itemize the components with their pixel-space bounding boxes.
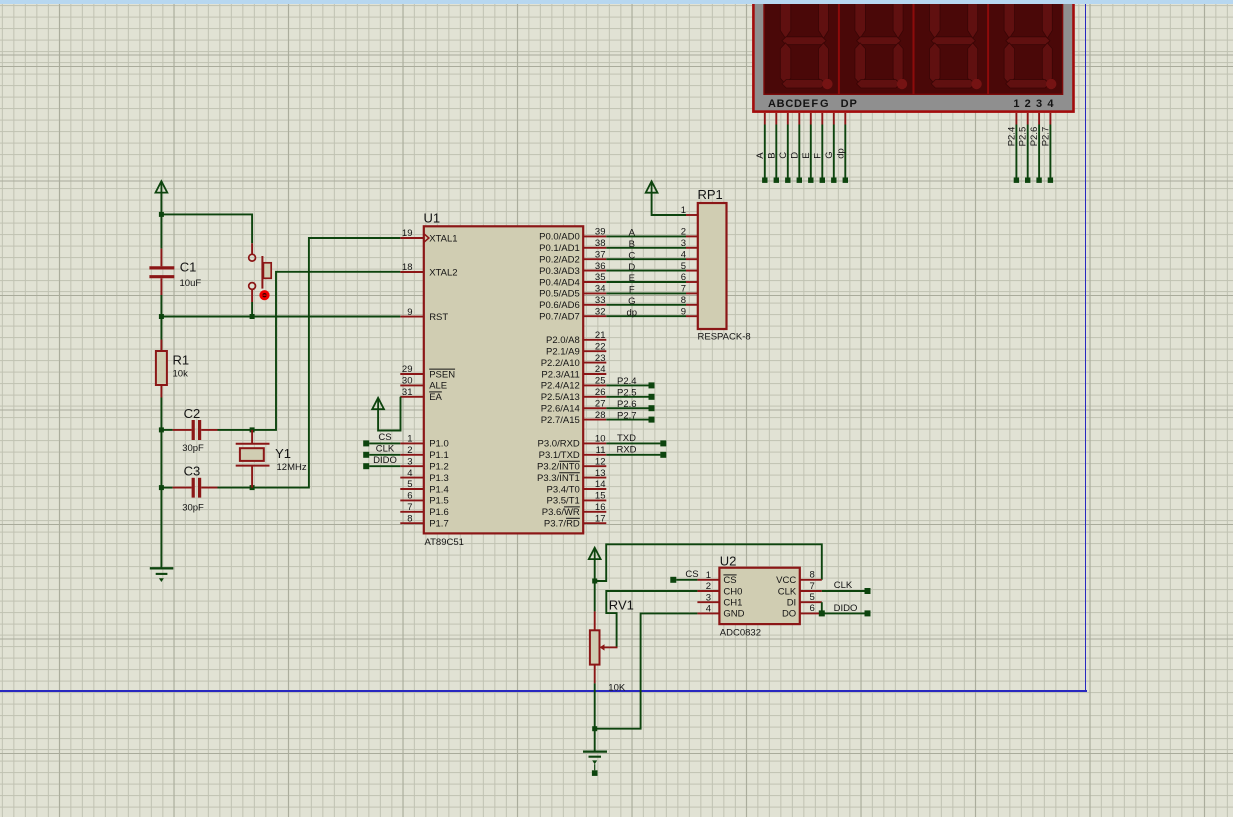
display pin D [798, 113, 800, 125]
terminal P2.4 [649, 382, 655, 388]
terminal P2.6 [649, 405, 655, 411]
svg-text:17: 17 [595, 513, 606, 524]
svg-text:dp: dp [835, 148, 846, 159]
svg-text:P2.7/A15: P2.7/A15 [541, 415, 580, 426]
wire VCC to RP1 pin 1 [652, 193, 686, 215]
RP1 pin 2 [681, 227, 698, 238]
svg-text:C: C [785, 98, 793, 110]
U2 pin 6 DO [782, 603, 822, 620]
U1 pin 22 P2.1/A9 [546, 341, 606, 357]
wire net C (P0.2 to RP1 pin 4) [606, 258, 686, 260]
svg-text:33: 33 [595, 295, 606, 306]
svg-text:PSEN: PSEN [429, 369, 455, 380]
svg-text:CLK: CLK [834, 580, 853, 591]
svg-text:P3.3/INT1: P3.3/INT1 [537, 473, 580, 484]
wire DI to DO [821, 602, 823, 613]
terminal CS (U1 side) [363, 440, 369, 446]
junction Y1 bottom [250, 485, 255, 490]
terminal display A [762, 178, 767, 183]
svg-text:P0.4/AD4: P0.4/AD4 [539, 277, 580, 288]
svg-text:R1: R1 [173, 353, 190, 368]
svg-text:30: 30 [402, 376, 413, 387]
junction DI/DO [819, 610, 825, 616]
U2 pin 7 CLK [778, 581, 822, 598]
svg-text:5: 5 [810, 592, 815, 603]
terminal display dp [843, 178, 848, 183]
wire VCC to EA pin [378, 397, 400, 431]
svg-text:1: 1 [1013, 98, 1019, 110]
svg-text:22: 22 [595, 341, 606, 352]
display pin F [821, 113, 823, 125]
junction Y1 top [250, 427, 255, 432]
wire C2 net down to C3 net [160, 430, 162, 488]
svg-text:XTAL2: XTAL2 [429, 267, 457, 278]
svg-text:ALE: ALE [429, 381, 447, 392]
wire display segment G [833, 125, 835, 178]
potentiometer RV1 10K [590, 611, 618, 683]
U1 pin 19 XTAL1 [400, 228, 457, 244]
wire display segment F [821, 125, 823, 178]
svg-text:P1.1: P1.1 [429, 450, 449, 461]
U1 pin 9 RST [400, 307, 448, 323]
wire net F (P0.5 to RP1 pin 7) [606, 292, 686, 294]
svg-text:A: A [629, 228, 636, 239]
wire display segment E [810, 125, 812, 178]
svg-text:39: 39 [595, 227, 606, 238]
svg-text:CH0: CH0 [723, 586, 742, 597]
svg-text:P0.2/AD2: P0.2/AD2 [539, 255, 580, 266]
svg-text:U1: U1 [424, 211, 441, 226]
svg-text:EA: EA [429, 392, 442, 403]
U1 pin 12 P3.2/INT0 [537, 456, 606, 472]
svg-text:27: 27 [595, 398, 606, 409]
svg-text:5: 5 [407, 479, 412, 490]
U1 pin 24 P2.3/A11 [541, 364, 606, 380]
svg-text:37: 37 [595, 249, 606, 260]
svg-text:CS: CS [378, 432, 391, 443]
svg-text:1: 1 [706, 570, 711, 581]
junction button bottom on RST net [250, 314, 255, 319]
svg-text:P1.4: P1.4 [429, 484, 449, 495]
svg-text:E: E [629, 273, 635, 284]
capacitor C2 [173, 420, 218, 440]
svg-text:14: 14 [595, 479, 606, 490]
U1 pin 23 P2.2/A10 [541, 353, 607, 369]
svg-text:C1: C1 [180, 260, 197, 275]
display digit 3 segments [930, 3, 982, 89]
svg-text:3: 3 [407, 456, 412, 467]
wire button bottom to RST net [251, 302, 253, 317]
display pin digit 3 [1038, 113, 1040, 125]
svg-text:ADC0832: ADC0832 [720, 628, 761, 639]
svg-text:16: 16 [595, 502, 606, 513]
svg-text:6: 6 [810, 603, 815, 614]
ground symbol (left) [150, 568, 174, 582]
wire display digit select P2.7 [1049, 125, 1051, 178]
wire display segment dp [844, 125, 846, 178]
svg-text:CS: CS [685, 569, 698, 580]
svg-text:TXD: TXD [617, 433, 636, 444]
junction node RST/C1/R1 [159, 314, 164, 319]
RP1 pin 7 [681, 284, 698, 295]
RP1 pin 4 [681, 249, 698, 260]
U1 pin 2 P1.1 [400, 445, 448, 461]
U1 pin 25 P2.4/A12 [541, 376, 607, 392]
wire display digit select P2.6 [1038, 125, 1040, 178]
RP1 pin 8 [681, 295, 698, 306]
svg-text:P2.5/A13: P2.5/A13 [541, 392, 580, 403]
wire R1 bottom to C2 net [160, 398, 162, 430]
wire U2 GND to ground [595, 613, 698, 728]
U1 pin 1 P1.0 [400, 434, 448, 450]
U2 pin 8 VCC [776, 570, 822, 587]
svg-text:15: 15 [595, 491, 606, 502]
svg-text:D: D [789, 152, 800, 159]
svg-text:E: E [803, 98, 810, 110]
power symbol VCC (EA) [372, 398, 384, 410]
svg-text:P1.0: P1.0 [429, 439, 449, 450]
terminal display B [774, 178, 779, 183]
display pin A [764, 113, 766, 125]
display bezel label ABCDEFG DP [768, 98, 857, 110]
terminal DIDO (U2 side) [865, 610, 871, 616]
svg-text:P2.5: P2.5 [1018, 127, 1029, 147]
svg-text:U2: U2 [720, 553, 737, 568]
terminal RXD [660, 452, 666, 458]
svg-text:P2.3/A11: P2.3/A11 [541, 369, 579, 380]
svg-text:CH1: CH1 [723, 598, 742, 609]
U1 pin 21 P2.0/A8 [546, 330, 606, 346]
display pin dp [844, 113, 846, 125]
U1 pin 14 P3.4/T0 [547, 479, 607, 495]
RP1 pin 1 [681, 205, 698, 216]
wire down to ground symbol [594, 729, 596, 751]
terminal CLK (U2 side) [865, 588, 871, 594]
svg-text:4: 4 [1047, 98, 1054, 110]
U1 pin 36 P0.3/AD3 [539, 261, 606, 277]
terminal display E [808, 178, 813, 183]
U1 pin 29 PSEN [400, 364, 455, 380]
svg-text:P2.2/A10: P2.2/A10 [541, 358, 580, 369]
svg-text:26: 26 [595, 387, 606, 398]
wire VCC stem (U2) [594, 559, 596, 581]
svg-text:18: 18 [402, 262, 413, 273]
U1 pin 3 P1.2 [400, 456, 448, 472]
U2 pin 4 GND [697, 604, 744, 620]
svg-text:36: 36 [595, 261, 606, 272]
svg-text:D: D [841, 98, 849, 110]
wire net RST to U1 pin 9 [161, 316, 400, 318]
wire net P2.6 [606, 407, 648, 409]
terminal display P2.5 [1025, 178, 1030, 183]
svg-text:P0.7/AD7: P0.7/AD7 [539, 312, 580, 323]
svg-text:Y1: Y1 [275, 446, 291, 461]
svg-text:3: 3 [706, 592, 711, 603]
wire net CLK to U1 [369, 454, 400, 456]
terminal display F [820, 178, 825, 183]
wire to C1 top [160, 214, 162, 248]
svg-text:11: 11 [596, 445, 606, 456]
wire display segment B [775, 125, 777, 178]
svg-text:P2.1/A9: P2.1/A9 [546, 347, 580, 358]
display digit separator 1 [838, 2, 840, 94]
svg-text:8: 8 [407, 513, 412, 524]
power symbol VCC (RP1) [646, 181, 658, 193]
svg-text:38: 38 [595, 238, 606, 249]
wire net A (P0.0 to RP1 pin 2) [606, 235, 686, 237]
display pin B [775, 113, 777, 125]
svg-text:C: C [778, 152, 789, 159]
svg-text:DO: DO [782, 609, 796, 620]
push button (reset) [249, 243, 271, 302]
U1 pin 15 P3.5/T1 [547, 491, 607, 507]
svg-text:2: 2 [407, 445, 412, 456]
svg-text:CLK: CLK [376, 444, 395, 455]
sheet border vertical [1085, 4, 1086, 691]
terminal display C [785, 178, 790, 183]
resistor pack RP1 RESPACK-8 [698, 203, 727, 329]
wire net DIDO from U2 [822, 612, 865, 614]
svg-text:P1.2: P1.2 [429, 462, 449, 473]
svg-text:P3.7/RD: P3.7/RD [544, 519, 580, 530]
svg-text:P2.6: P2.6 [617, 399, 637, 410]
svg-text:P2.6: P2.6 [1029, 127, 1040, 147]
U1 pin 33 P0.6/AD6 [539, 295, 606, 311]
wire net G (P0.6 to RP1 pin 8) [606, 304, 686, 306]
svg-text:P2.0/A8: P2.0/A8 [546, 335, 580, 346]
display pin E [810, 113, 812, 125]
svg-text:30pF: 30pF [182, 443, 204, 454]
crystal Y1 [236, 430, 270, 488]
U1 pin 34 P0.5/AD5 [539, 284, 606, 300]
svg-text:10: 10 [595, 434, 606, 445]
capacitor C3 [173, 478, 218, 498]
sheet border bottom [0, 690, 1087, 691]
wire VCC to RV1 top [594, 581, 596, 611]
U1 pin 8 P1.7 [400, 513, 448, 529]
junction node XTAL1 net left [159, 485, 164, 490]
wire RV1 bottom to ground net [594, 683, 596, 728]
svg-text:RP1: RP1 [698, 187, 723, 202]
svg-text:P2.7: P2.7 [1040, 127, 1051, 147]
U1 pin 16 P3.6/WR [542, 502, 607, 518]
svg-text:1: 1 [407, 434, 412, 445]
svg-text:P3.0/RXD: P3.0/RXD [538, 439, 580, 450]
svg-text:B: B [766, 152, 777, 158]
svg-text:25: 25 [595, 376, 606, 387]
svg-text:4: 4 [706, 604, 711, 615]
wire net dp (P0.7 to RP1 pin 9) [606, 315, 686, 317]
svg-text:G: G [820, 98, 829, 110]
svg-text:P2.5: P2.5 [617, 388, 637, 399]
svg-text:P2.4/A12: P2.4/A12 [541, 381, 580, 392]
svg-text:P1.3: P1.3 [429, 473, 449, 484]
wire C1 bottom to RST net [160, 295, 162, 317]
svg-text:F: F [629, 285, 635, 296]
junction node VCC/RV1 [592, 579, 597, 584]
display pin digit 1 [1015, 113, 1017, 125]
U1 pin 30 ALE [400, 376, 447, 392]
wire display digit select P2.4 [1015, 125, 1017, 178]
wire display segment A [764, 125, 766, 178]
svg-text:19: 19 [402, 228, 413, 239]
svg-text:G: G [628, 296, 635, 307]
svg-text:24: 24 [595, 364, 606, 375]
svg-text:RV1: RV1 [609, 598, 634, 613]
svg-text:32: 32 [595, 306, 606, 317]
terminal P2.7 [649, 417, 655, 423]
terminal display G [831, 178, 836, 183]
svg-text:P: P [850, 98, 857, 110]
U1 pin 5 P1.4 [400, 479, 448, 495]
svg-text:P2.4: P2.4 [1006, 127, 1017, 147]
display digit 2 segments [855, 3, 907, 89]
svg-text:8: 8 [810, 570, 815, 581]
display digit 1 segments [780, 3, 832, 89]
svg-text:P0.3/AD3: P0.3/AD3 [539, 266, 580, 277]
U1 pin 10 P3.0/RXD [538, 434, 607, 450]
svg-text:6: 6 [407, 491, 412, 502]
svg-text:A: A [768, 98, 776, 110]
U1 pin 37 P0.2/AD2 [539, 249, 606, 265]
adc U2 ADC0832 [719, 568, 799, 624]
svg-text:7: 7 [810, 581, 815, 592]
svg-text:CLK: CLK [778, 586, 797, 597]
junction node VCC/C1/button [159, 212, 164, 217]
svg-text:C3: C3 [184, 464, 201, 479]
svg-text:P2.6/A14: P2.6/A14 [541, 404, 580, 415]
wire to C3 [161, 487, 172, 489]
display pin C [787, 113, 789, 125]
wire net XTAL2 (C2/Y1 top to U1 pin 18) [218, 272, 401, 430]
svg-text:12: 12 [595, 456, 606, 467]
svg-text:D: D [794, 98, 802, 110]
svg-text:10k: 10k [173, 369, 189, 380]
terminal display P2.7 [1048, 178, 1053, 183]
U2 pin 3 CH1 [697, 592, 742, 608]
terminal TXD [660, 440, 666, 446]
svg-text:A: A [755, 152, 766, 159]
display digit 4 segments [1004, 3, 1056, 89]
power symbol VCC (U2) [589, 548, 601, 560]
svg-text:10uF: 10uF [180, 278, 202, 289]
wire VCC stem [160, 193, 162, 215]
svg-text:P3.1/TXD: P3.1/TXD [539, 450, 580, 461]
svg-text:P0.0/AD0: P0.0/AD0 [539, 232, 580, 243]
svg-text:P2.4: P2.4 [617, 376, 637, 387]
junction node XTAL2 net left [159, 427, 164, 432]
svg-text:P0.6/AD6: P0.6/AD6 [539, 300, 580, 311]
U1 pin 6 P1.5 [400, 491, 448, 507]
svg-text:P3.4/T0: P3.4/T0 [547, 484, 580, 495]
svg-text:34: 34 [595, 284, 606, 295]
display bezel label 1234 [1013, 98, 1054, 110]
U1 pin 11 P3.1/TXD [539, 445, 607, 461]
svg-text:2: 2 [706, 581, 711, 592]
wire net P2.7 [606, 419, 648, 421]
U1 pin 13 P3.3/INT1 [537, 468, 606, 484]
svg-text:13: 13 [595, 468, 606, 479]
svg-text:P3.2/INT0: P3.2/INT0 [537, 462, 580, 473]
svg-text:G: G [824, 151, 835, 158]
RP1 pin 6 [681, 272, 698, 283]
display pin digit 2 [1027, 113, 1029, 125]
svg-text:P2.7: P2.7 [617, 410, 637, 421]
svg-text:VCC: VCC [776, 575, 796, 586]
svg-text:31: 31 [402, 387, 413, 398]
wire net CLK from U2 [822, 590, 865, 592]
wire net P2.4 [606, 384, 648, 386]
wire VCC to U2 pin 8 [595, 544, 822, 581]
wire net CS to U1 [369, 442, 400, 444]
wire to C2 [161, 429, 172, 431]
svg-text:21: 21 [595, 330, 606, 341]
svg-text:RXD: RXD [616, 444, 636, 455]
wire net E (P0.4 to RP1 pin 6) [606, 281, 686, 283]
svg-text:P1.7: P1.7 [429, 519, 449, 530]
U2 pin 1 CS [697, 570, 736, 586]
svg-text:P0.5/AD5: P0.5/AD5 [539, 289, 580, 300]
svg-text:P1.6: P1.6 [429, 507, 449, 518]
U1 pin 27 P2.6/A14 [541, 398, 607, 414]
svg-text:RESPACK-8: RESPACK-8 [698, 331, 751, 342]
svg-text:P0.1/AD1: P0.1/AD1 [539, 243, 580, 254]
ground symbol (bottom) [583, 752, 607, 776]
svg-text:DI: DI [787, 598, 797, 609]
svg-text:P3.6/WR: P3.6/WR [542, 507, 580, 518]
display pin digit 4 [1049, 113, 1051, 125]
U1 pin 32 P0.7/AD7 [539, 306, 606, 322]
svg-text:RST: RST [429, 312, 448, 323]
terminal CS (U2 side) [670, 577, 676, 583]
wire net XTAL1 (C3/Y1 bottom to U1 pin 19) [218, 238, 401, 488]
svg-text:DIDO: DIDO [834, 603, 858, 614]
wire net D (P0.3 to RP1 pin 5) [606, 270, 686, 272]
terminal P2.5 [649, 394, 655, 400]
capacitor C1 [149, 249, 174, 295]
display digit separator 2 [913, 2, 915, 94]
U1 pin 39 P0.0/AD0 [539, 227, 606, 243]
svg-text:C2: C2 [184, 406, 201, 421]
wire net P2.5 [606, 396, 648, 398]
wire RV1 wiper to U2 CH0 [606, 591, 697, 647]
wire display segment C [787, 125, 789, 178]
svg-text:10K: 10K [608, 683, 626, 694]
svg-text:D: D [628, 262, 635, 273]
svg-text:12MHz: 12MHz [277, 462, 307, 473]
terminal display D [797, 178, 802, 183]
svg-text:28: 28 [595, 410, 606, 421]
U1 pin 35 P0.4/AD4 [539, 272, 606, 288]
svg-text:C: C [628, 250, 635, 261]
svg-text:7: 7 [407, 502, 412, 513]
U1 pin 4 P1.3 [400, 468, 448, 484]
wire VCC to button top [161, 214, 252, 243]
svg-text:30pF: 30pF [182, 502, 204, 513]
svg-text:AT89C51: AT89C51 [425, 537, 464, 548]
terminal CLK (U1 side) [363, 452, 369, 458]
U1 pin 18 XTAL2 [400, 262, 457, 278]
wire C3 net to ground [160, 488, 162, 568]
svg-text:4: 4 [407, 468, 412, 479]
svg-text:P1.5: P1.5 [429, 496, 449, 507]
display digit separator 3 [987, 2, 989, 94]
7-segment display module (4 digit) [753, 0, 1073, 112]
svg-text:B: B [777, 98, 785, 110]
wire display segment D [798, 125, 800, 178]
U2 pin 2 CH0 [697, 581, 742, 597]
svg-text:F: F [812, 153, 823, 159]
